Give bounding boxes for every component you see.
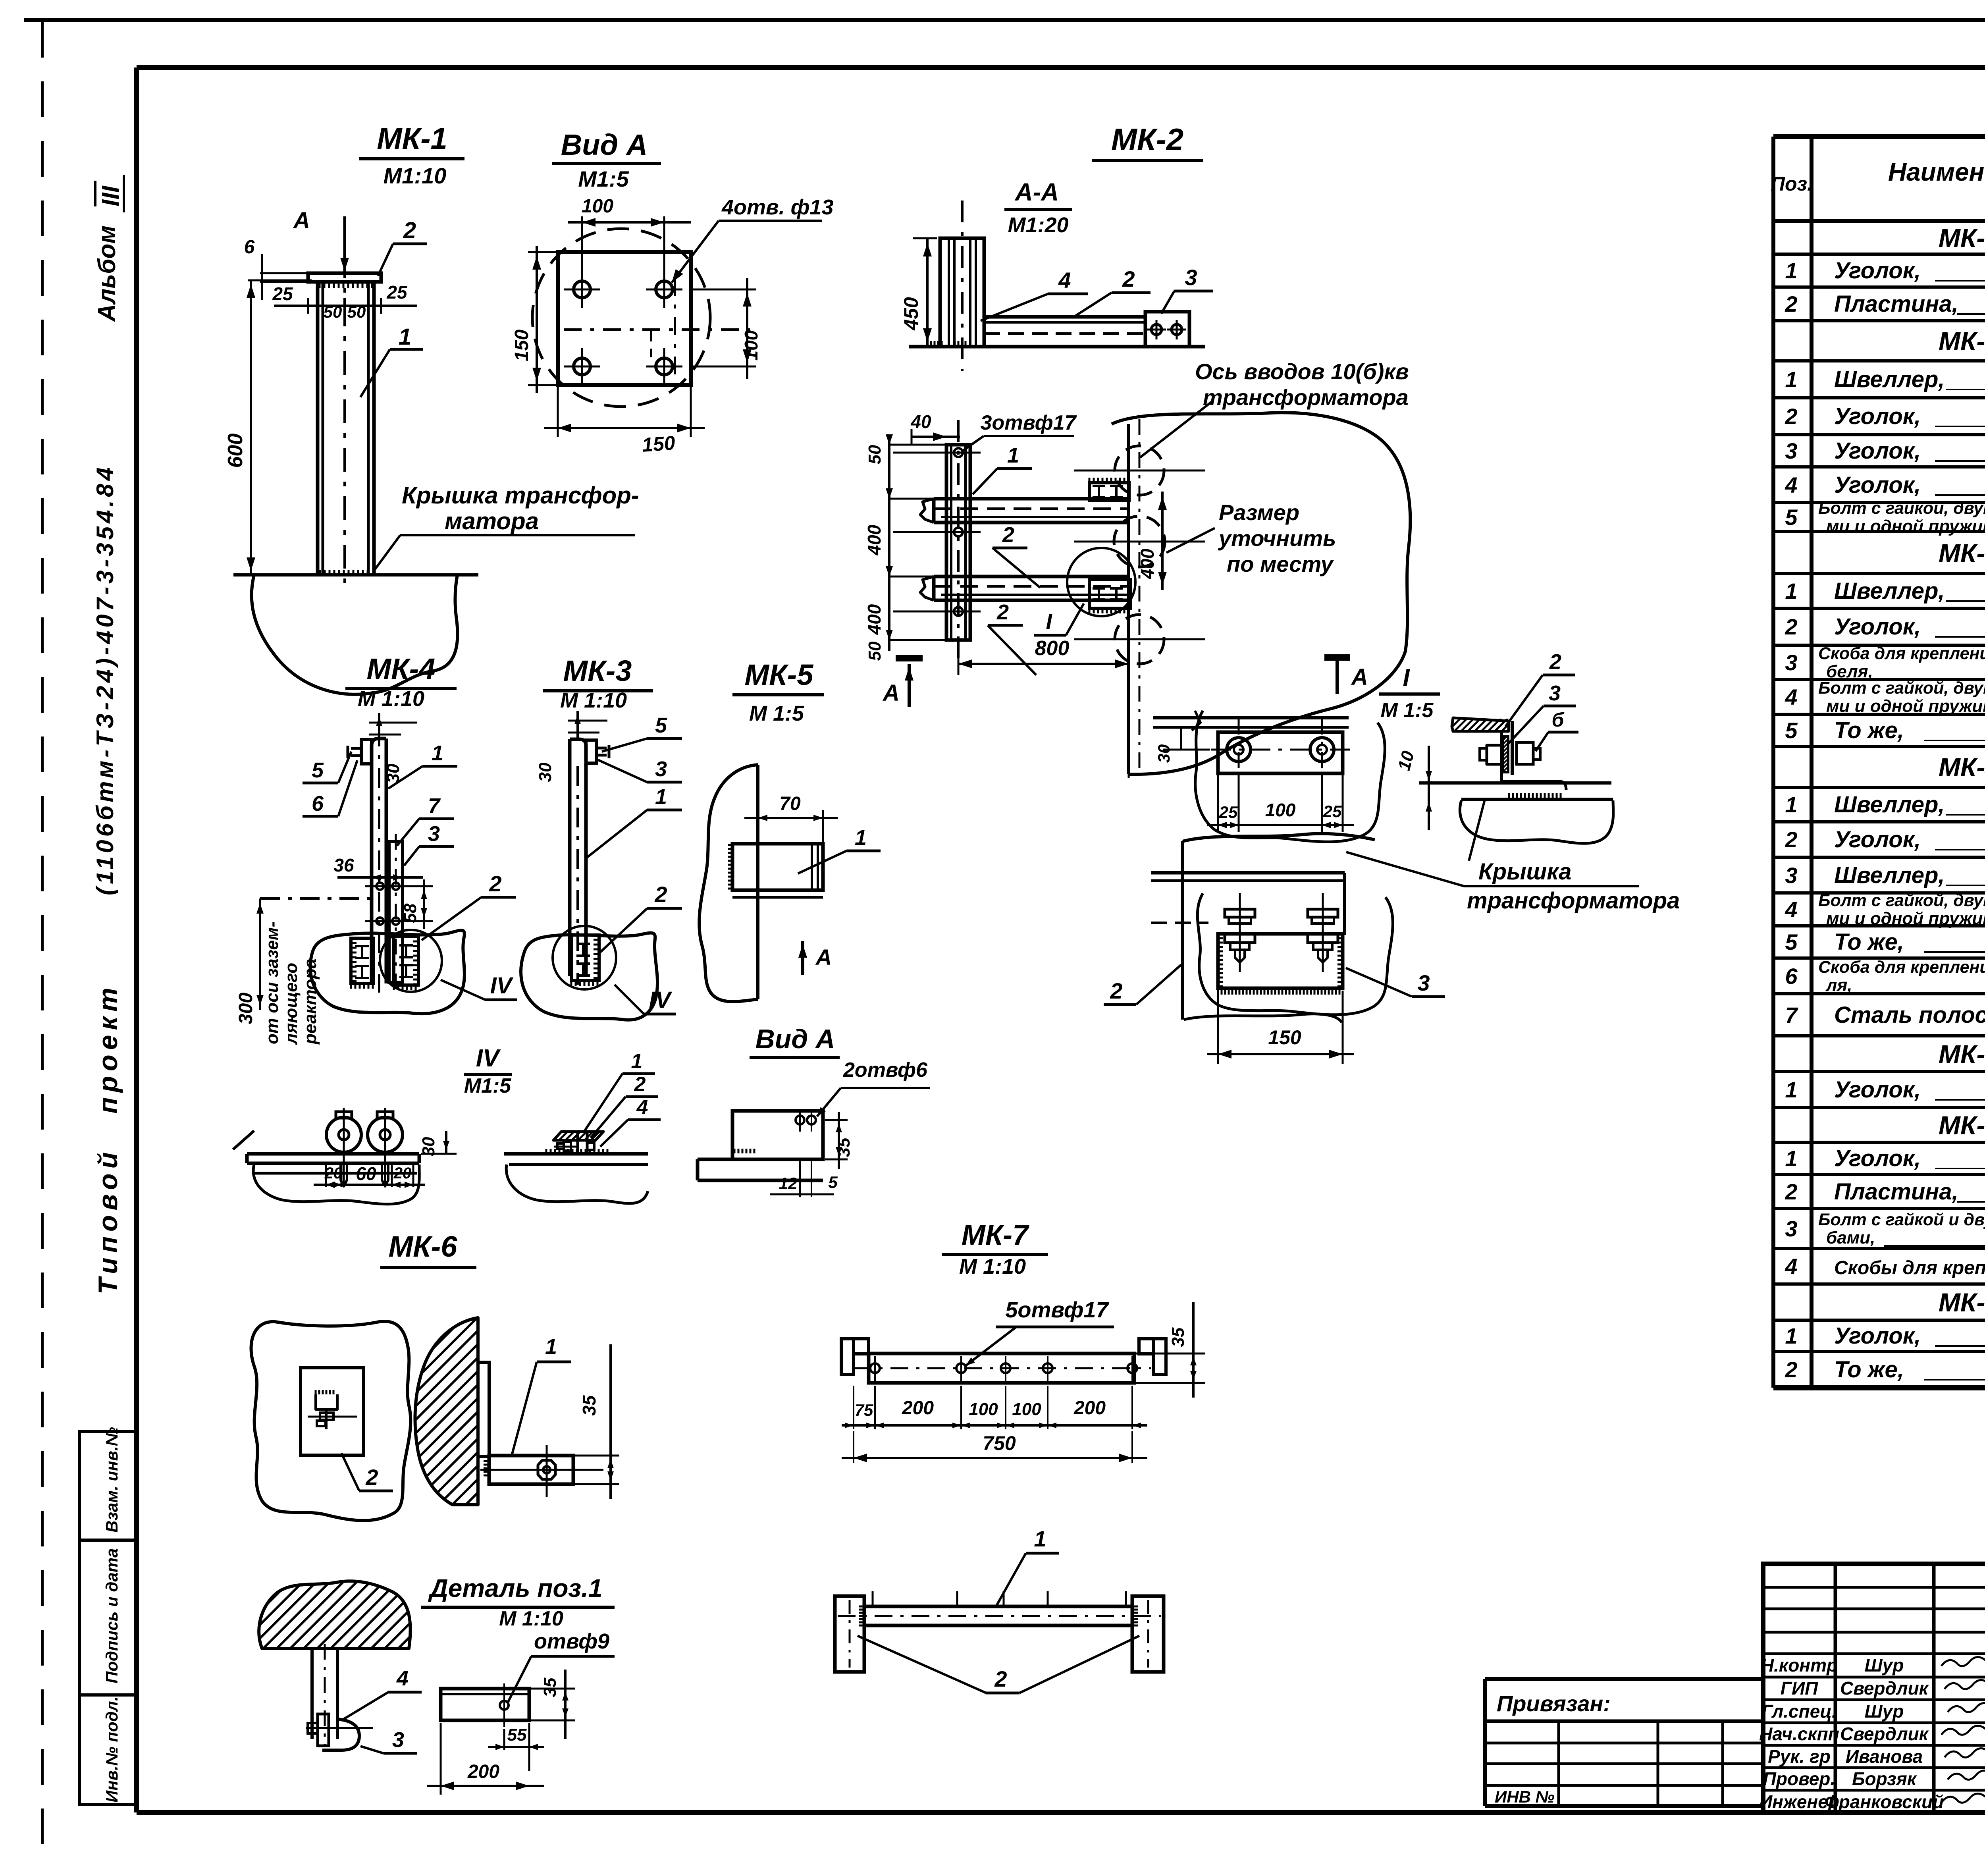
svg-text:М 1:5: М 1:5 bbox=[749, 702, 804, 725]
svg-text:20: 20 bbox=[393, 1165, 412, 1182]
svg-text:2: 2 bbox=[489, 871, 501, 896]
svg-text:отвф9: отвф9 bbox=[534, 1629, 609, 1653]
svg-text:2: 2 bbox=[654, 882, 667, 907]
svg-text:Уголок,: Уголок, bbox=[1834, 1077, 1921, 1103]
svg-text:2: 2 bbox=[1785, 614, 1797, 639]
svg-text:7: 7 bbox=[428, 794, 441, 818]
svg-text:100: 100 bbox=[1265, 800, 1296, 820]
svg-text:750: 750 bbox=[983, 1432, 1016, 1454]
svg-text:50: 50 bbox=[324, 303, 342, 321]
svg-text:М 1:10: М 1:10 bbox=[358, 687, 424, 711]
svg-text:IV: IV bbox=[490, 973, 514, 999]
svg-text:Швеллер,: Швеллер, bbox=[1834, 578, 1945, 604]
svg-text:Пластина,: Пластина, bbox=[1834, 291, 1958, 317]
svg-text:2: 2 bbox=[994, 1666, 1007, 1691]
svg-text:4: 4 bbox=[1058, 268, 1071, 293]
svg-text:М1:10: М1:10 bbox=[384, 163, 447, 188]
svg-text:Привязан:: Привязан: bbox=[1497, 1691, 1611, 1716]
svg-text:МК-4: МК-4 bbox=[367, 652, 436, 685]
svg-text:Скобы для крепления кабеля, шт: Скобы для крепления кабеля, шт bbox=[1834, 1257, 1985, 1278]
svg-text:100: 100 bbox=[741, 330, 761, 361]
svg-text:МК-1: МК-1 bbox=[377, 122, 447, 156]
svg-text:МК-5: МК-5 bbox=[1939, 1039, 1985, 1069]
svg-text:Ось вводов 10(б)кв: Ось вводов 10(б)кв bbox=[1195, 359, 1409, 384]
svg-text:М1:20: М1:20 bbox=[1008, 213, 1068, 237]
svg-text:Вид А: Вид А bbox=[561, 128, 648, 161]
svg-text:бами,: бами, bbox=[1826, 1228, 1875, 1247]
svg-text:50: 50 bbox=[865, 641, 885, 661]
svg-text:Уголок,: Уголок, bbox=[1834, 258, 1921, 283]
svg-text:50: 50 bbox=[865, 445, 885, 464]
svg-text:3: 3 bbox=[392, 1728, 404, 1752]
svg-text:7: 7 bbox=[1785, 1003, 1798, 1028]
svg-text:25: 25 bbox=[386, 282, 408, 303]
svg-text:1: 1 bbox=[631, 1050, 643, 1073]
svg-text:1: 1 bbox=[1785, 367, 1797, 392]
svg-text:Нач.скпп: Нач.скпп bbox=[1759, 1724, 1839, 1744]
svg-text:М1:5: М1:5 bbox=[578, 166, 629, 191]
svg-text:1: 1 bbox=[545, 1335, 557, 1359]
svg-text:М 1:10: М 1:10 bbox=[560, 688, 627, 712]
svg-text:1: 1 bbox=[1785, 1323, 1797, 1348]
svg-text:1: 1 bbox=[855, 826, 867, 850]
svg-text:Наименование: Наименование bbox=[1888, 158, 1985, 186]
svg-text:проект: проект bbox=[93, 983, 123, 1114]
svg-text:Рук. гр: Рук. гр bbox=[1768, 1746, 1831, 1767]
svg-text:Швеллер,: Швеллер, bbox=[1834, 366, 1945, 392]
svg-text:50: 50 bbox=[347, 303, 366, 321]
svg-text:100: 100 bbox=[969, 1400, 998, 1419]
svg-text:(1106бтм-ТЗ-24)-407-3-354.84: (1106бтм-ТЗ-24)-407-3-354.84 bbox=[92, 464, 118, 895]
svg-text:трансформатора: трансформатора bbox=[1203, 385, 1409, 410]
svg-text:3: 3 bbox=[1417, 970, 1430, 995]
svg-text:МК-7: МК-7 bbox=[1939, 1288, 1985, 1317]
svg-text:4отв. ф13: 4отв. ф13 bbox=[721, 195, 834, 219]
svg-text:4: 4 bbox=[1785, 684, 1797, 710]
svg-text:ляющего: ляющего bbox=[281, 963, 301, 1045]
svg-text:2: 2 bbox=[1122, 266, 1135, 291]
svg-text:2: 2 bbox=[1549, 650, 1561, 674]
svg-text:25: 25 bbox=[1219, 803, 1238, 821]
svg-text:3: 3 bbox=[1785, 650, 1797, 675]
svg-text:30: 30 bbox=[1154, 744, 1173, 763]
svg-text:Уголок,: Уголок, bbox=[1834, 403, 1921, 429]
svg-text:А: А bbox=[1351, 664, 1368, 690]
svg-text:6: 6 bbox=[244, 237, 255, 258]
svg-text:5: 5 bbox=[828, 1173, 838, 1192]
svg-text:Уголок,: Уголок, bbox=[1834, 472, 1921, 498]
svg-text:36: 36 bbox=[333, 855, 354, 875]
svg-text:Болт с гайкой, двумя нормальны: Болт с гайкой, двумя нормальны- bbox=[1818, 891, 1985, 910]
svg-text:3: 3 bbox=[1785, 1216, 1797, 1241]
svg-text:I: I bbox=[1403, 664, 1410, 692]
svg-text:Инв.№ подл.: Инв.№ подл. bbox=[102, 1697, 121, 1803]
svg-text:Сталь полосовая,: Сталь полосовая, bbox=[1834, 1002, 1985, 1028]
svg-text:1: 1 bbox=[399, 324, 411, 350]
svg-text:реактора: реактора bbox=[301, 959, 320, 1045]
svg-text:25: 25 bbox=[272, 283, 293, 304]
svg-text:2: 2 bbox=[634, 1073, 646, 1096]
svg-text:М1:5: М1:5 bbox=[464, 1074, 512, 1097]
svg-text:Взам. инв.№: Взам. инв.№ bbox=[102, 1427, 121, 1533]
svg-text:трансформатора: трансформатора bbox=[1467, 888, 1680, 914]
svg-text:МК-6: МК-6 bbox=[389, 1230, 458, 1263]
svg-text:150: 150 bbox=[641, 432, 676, 456]
svg-text:Болт с гайкой, двумя нормальны: Болт с гайкой, двумя нормальны- bbox=[1818, 679, 1985, 698]
svg-text:М 1:10: М 1:10 bbox=[499, 1607, 563, 1630]
svg-text:Шур: Шур bbox=[1865, 1655, 1904, 1675]
svg-text:М 1:10: М 1:10 bbox=[959, 1255, 1026, 1278]
svg-text:35: 35 bbox=[1168, 1327, 1188, 1347]
svg-text:То же,: То же, bbox=[1834, 929, 1904, 955]
svg-text:I: I bbox=[1046, 609, 1052, 634]
svg-text:2: 2 bbox=[1785, 827, 1797, 852]
svg-text:ИНВ №: ИНВ № bbox=[1495, 1787, 1555, 1806]
svg-text:3: 3 bbox=[655, 757, 667, 781]
svg-text:Франковский: Франковский bbox=[1825, 1791, 1944, 1812]
svg-text:100: 100 bbox=[1012, 1400, 1041, 1419]
svg-text:Уголок,: Уголок, bbox=[1834, 614, 1921, 640]
svg-text:МК-6: МК-6 bbox=[1939, 1111, 1985, 1140]
svg-text:IV: IV bbox=[476, 1045, 501, 1072]
svg-text:А: А bbox=[293, 208, 310, 233]
svg-text:Скоба для крепления кабе-: Скоба для крепления кабе- bbox=[1818, 958, 1985, 977]
svg-text:Размер: Размер bbox=[1219, 500, 1299, 525]
svg-text:Свердлик: Свердлик bbox=[1840, 1724, 1929, 1744]
svg-text:300: 300 bbox=[235, 993, 256, 1024]
svg-text:200: 200 bbox=[467, 1761, 499, 1782]
svg-text:МК-1: МК-1 bbox=[1939, 223, 1985, 253]
svg-text:1: 1 bbox=[1785, 1077, 1797, 1102]
svg-text:4: 4 bbox=[396, 1666, 409, 1690]
svg-text:6: 6 bbox=[1785, 964, 1798, 989]
svg-text:70: 70 bbox=[779, 793, 801, 814]
svg-text:То же,: То же, bbox=[1834, 1357, 1904, 1382]
svg-text:1: 1 bbox=[1785, 792, 1797, 817]
svg-text:ГИП: ГИП bbox=[1781, 1678, 1818, 1699]
svg-text:Провер.: Провер. bbox=[1763, 1768, 1835, 1789]
svg-text:3: 3 bbox=[1785, 438, 1797, 463]
svg-text:2: 2 bbox=[1110, 978, 1122, 1003]
svg-text:150: 150 bbox=[1268, 1026, 1301, 1049]
svg-text:Пластина,: Пластина, bbox=[1834, 1179, 1958, 1205]
svg-text:Болт с гайкой, двумя нормальны: Болт с гайкой, двумя нормальны- bbox=[1818, 499, 1985, 518]
svg-text:Шур: Шур bbox=[1865, 1701, 1904, 1722]
svg-text:150: 150 bbox=[511, 330, 532, 361]
svg-text:450: 450 bbox=[900, 297, 922, 331]
svg-text:5: 5 bbox=[1785, 929, 1798, 954]
svg-text:3: 3 bbox=[1549, 681, 1561, 705]
svg-text:Деталь поз.1: Деталь поз.1 bbox=[428, 1574, 603, 1602]
svg-text:60: 60 bbox=[356, 1163, 376, 1184]
svg-text:75: 75 bbox=[855, 1401, 873, 1419]
svg-text:3: 3 bbox=[428, 822, 440, 846]
svg-text:100: 100 bbox=[582, 196, 613, 217]
svg-text:35: 35 bbox=[540, 1677, 560, 1697]
svg-text:МК-2: МК-2 bbox=[1111, 122, 1183, 157]
svg-text:МК-3: МК-3 bbox=[1939, 538, 1985, 568]
svg-text:1: 1 bbox=[1785, 578, 1797, 603]
svg-text:Болт с гайкой и двумя шай-: Болт с гайкой и двумя шай- bbox=[1818, 1210, 1985, 1229]
svg-text:от оси зазем-: от оси зазем- bbox=[262, 922, 282, 1044]
svg-text:Уголок,: Уголок, bbox=[1834, 438, 1921, 464]
svg-text:25: 25 bbox=[1323, 802, 1342, 821]
svg-text:2: 2 bbox=[1785, 291, 1797, 316]
svg-text:То же,: То же, bbox=[1834, 717, 1904, 743]
svg-text:Гл.спец.: Гл.спец. bbox=[1761, 1701, 1837, 1722]
svg-text:1: 1 bbox=[655, 785, 667, 809]
svg-text:4: 4 bbox=[1785, 1254, 1797, 1279]
svg-text:ми и одной пружинной шайбами к: ми и одной пружинной шайбами к-т bbox=[1826, 909, 1985, 928]
svg-text:5: 5 bbox=[1785, 505, 1798, 530]
svg-text:ля,: ля, bbox=[1825, 976, 1852, 995]
svg-text:1: 1 bbox=[1034, 1526, 1046, 1551]
svg-text:ми и одной пружинной шайбами к: ми и одной пружинной шайбами к-т bbox=[1826, 517, 1985, 536]
svg-text:Свердлик: Свердлик bbox=[1840, 1678, 1929, 1699]
svg-text:3: 3 bbox=[1185, 265, 1197, 290]
svg-text:Крышка трансфор-: Крышка трансфор- bbox=[402, 482, 639, 509]
svg-text:2: 2 bbox=[1785, 1179, 1797, 1204]
svg-text:Вид А: Вид А bbox=[755, 1024, 835, 1054]
svg-text:3отвф17: 3отвф17 bbox=[981, 411, 1077, 434]
svg-text:по месту: по месту bbox=[1227, 551, 1334, 576]
svg-text:5: 5 bbox=[312, 758, 324, 782]
svg-text:200: 200 bbox=[902, 1398, 934, 1419]
svg-text:1: 1 bbox=[432, 741, 443, 765]
svg-text:58: 58 bbox=[401, 903, 420, 923]
svg-text:2: 2 bbox=[1002, 523, 1014, 547]
svg-text:2: 2 bbox=[365, 1465, 378, 1490]
svg-text:1: 1 bbox=[1785, 258, 1797, 283]
svg-text:3: 3 bbox=[1785, 863, 1797, 888]
svg-text:5отвф17: 5отвф17 bbox=[1005, 1297, 1109, 1322]
svg-text:МК-3: МК-3 bbox=[563, 654, 632, 687]
svg-text:35: 35 bbox=[834, 1138, 854, 1157]
svg-text:35: 35 bbox=[579, 1395, 599, 1416]
svg-text:4: 4 bbox=[636, 1096, 648, 1119]
svg-text:800: 800 bbox=[1035, 637, 1070, 660]
svg-text:Швеллер,: Швеллер, bbox=[1834, 862, 1945, 888]
svg-text:М 1:5: М 1:5 bbox=[1381, 699, 1434, 722]
svg-text:МК-2: МК-2 bbox=[1939, 326, 1985, 356]
svg-text:Уголок,: Уголок, bbox=[1834, 1145, 1921, 1171]
svg-text:4: 4 bbox=[1785, 897, 1797, 922]
svg-text:20: 20 bbox=[324, 1165, 343, 1182]
svg-text:А-А: А-А bbox=[1014, 179, 1059, 206]
svg-text:2: 2 bbox=[996, 600, 1009, 624]
svg-text:6: 6 bbox=[312, 792, 324, 816]
svg-text:400: 400 bbox=[864, 524, 885, 555]
svg-text:А: А bbox=[882, 680, 900, 706]
svg-text:матора: матора bbox=[445, 508, 539, 534]
svg-text:А: А bbox=[815, 945, 832, 970]
svg-text:уточнить: уточнить bbox=[1218, 526, 1336, 551]
svg-text:5: 5 bbox=[655, 713, 667, 737]
svg-text:Скоба для крепления ка-: Скоба для крепления ка- bbox=[1818, 644, 1985, 663]
svg-text:б: б bbox=[1552, 709, 1565, 731]
svg-text:Подпись и дата: Подпись и дата bbox=[102, 1548, 121, 1683]
svg-text:400: 400 bbox=[864, 604, 885, 635]
svg-text:2: 2 bbox=[403, 218, 416, 243]
svg-text:40: 40 bbox=[910, 411, 931, 432]
svg-text:Поз.: Поз. bbox=[1771, 173, 1813, 195]
svg-text:30: 30 bbox=[536, 762, 555, 782]
svg-text:2отвф6: 2отвф6 bbox=[843, 1059, 928, 1082]
svg-text:12: 12 bbox=[779, 1174, 798, 1193]
svg-text:4: 4 bbox=[1785, 472, 1797, 497]
svg-text:Уголок,: Уголок, bbox=[1834, 1323, 1921, 1349]
svg-text:МК-7: МК-7 bbox=[962, 1219, 1029, 1251]
svg-text:МК-4: МК-4 bbox=[1939, 752, 1985, 782]
svg-text:Уголок,: Уголок, bbox=[1834, 827, 1921, 852]
svg-text:ми и одной пружинной шайбами к: ми и одной пружинной шайбами к-т bbox=[1826, 696, 1985, 716]
svg-text:III: III bbox=[97, 185, 125, 206]
svg-text:МК-5: МК-5 bbox=[745, 658, 814, 691]
svg-text:2: 2 bbox=[1785, 404, 1797, 429]
svg-text:5: 5 bbox=[1785, 718, 1798, 743]
svg-text:Иванова: Иванова bbox=[1846, 1746, 1923, 1767]
svg-text:1: 1 bbox=[1007, 443, 1019, 467]
svg-text:1: 1 bbox=[1785, 1146, 1797, 1171]
svg-text:600: 600 bbox=[224, 434, 247, 468]
svg-text:2: 2 bbox=[1785, 1357, 1797, 1382]
svg-text:200: 200 bbox=[1073, 1398, 1106, 1419]
svg-text:55: 55 bbox=[507, 1725, 527, 1745]
svg-text:400: 400 bbox=[1137, 548, 1158, 579]
svg-text:Крышка: Крышка bbox=[1478, 859, 1572, 885]
svg-text:Типовой: Типовой bbox=[93, 1147, 123, 1294]
svg-text:Борзяк: Борзяк bbox=[1852, 1768, 1918, 1789]
svg-text:Швеллер,: Швеллер, bbox=[1834, 792, 1945, 817]
svg-text:Н.контр: Н.контр bbox=[1761, 1655, 1838, 1675]
svg-text:Альбом: Альбом bbox=[93, 226, 121, 322]
